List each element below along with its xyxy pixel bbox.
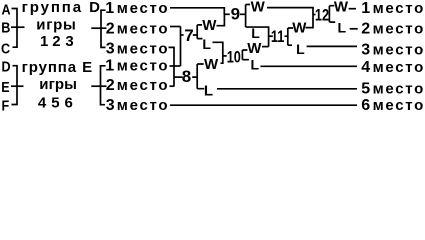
- svg-text:3: 3: [65, 33, 73, 50]
- svg-text:1: 1: [361, 0, 370, 17]
- svg-text:5: 5: [361, 80, 370, 97]
- svg-text:2: 2: [52, 33, 60, 50]
- svg-text:E: E: [1, 78, 9, 95]
- wire L11 to 3 место: [307, 45, 357, 47]
- bracket group D teams (A,B,C): [12, 9, 18, 48]
- svg-text:L: L: [338, 20, 347, 36]
- bracket group E teams (D,E,F): [12, 66, 18, 105]
- bracket group D places: [101, 10, 106, 47]
- svg-text:2: 2: [106, 20, 115, 37]
- game 7 output bracket: [193, 25, 203, 39]
- game 12 stub: [313, 14, 316, 16]
- svg-text:место: место: [373, 42, 425, 59]
- svg-text:игры: игры: [39, 76, 77, 93]
- wire W9 to game 12: [267, 8, 313, 14]
- svg-text:C: C: [1, 39, 10, 56]
- svg-text:3: 3: [361, 42, 370, 59]
- svg-text:7: 7: [184, 26, 193, 45]
- bracket group E places: [101, 66, 106, 105]
- svg-text:место: место: [117, 77, 169, 94]
- game 11 output bracket: [285, 28, 294, 45]
- wire W8 to game 10: [221, 56, 223, 63]
- svg-text:место: место: [373, 0, 425, 17]
- tick B: [11, 26, 25, 28]
- game 8 input bracket (D3 vs E2): [174, 76, 183, 78]
- svg-text:игры: игры: [36, 16, 76, 33]
- game 10 stub: [223, 55, 227, 57]
- wire L10 to 4 место: [261, 65, 358, 67]
- svg-text:W: W: [292, 20, 307, 37]
- svg-text:L: L: [251, 57, 260, 73]
- game 12 output bracket: [328, 6, 335, 22]
- game 9 stub: [224, 13, 229, 15]
- wire W12 dash to 1 место: [349, 8, 356, 10]
- svg-text:2: 2: [106, 77, 115, 94]
- svg-text:3: 3: [106, 97, 115, 114]
- svg-text:W: W: [204, 56, 219, 73]
- svg-text:группа Е: группа Е: [22, 59, 93, 76]
- svg-text:D: D: [2, 57, 11, 74]
- svg-text:место: место: [117, 40, 169, 57]
- wire D2 to game 7: [170, 26, 181, 28]
- svg-text:W: W: [247, 40, 262, 57]
- svg-text:W: W: [251, 0, 266, 16]
- svg-text:4: 4: [361, 59, 370, 76]
- svg-text:8: 8: [182, 67, 191, 86]
- svg-text:место: место: [117, 20, 169, 37]
- svg-text:место: место: [373, 20, 425, 37]
- svg-text:3: 3: [106, 40, 115, 57]
- svg-text:5: 5: [51, 95, 59, 112]
- game 10 output bracket: [242, 50, 249, 60]
- svg-text:4: 4: [38, 95, 47, 112]
- wire E2 to game 8: [170, 85, 175, 87]
- game 8 output bracket: [192, 64, 204, 89]
- wire W7 to game 9: [217, 14, 225, 26]
- wire L9 elbow down to game 11: [246, 27, 269, 47]
- svg-text:L: L: [202, 36, 211, 52]
- svg-text:1: 1: [105, 0, 114, 17]
- svg-text:L: L: [296, 41, 305, 57]
- wire D1 to game 9: [170, 8, 224, 14]
- tick E: [11, 85, 24, 87]
- svg-text:F: F: [2, 96, 10, 113]
- svg-text:6: 6: [65, 95, 73, 112]
- wire D3 elbow down to game 8: [169, 47, 175, 86]
- wire L7 elbow down to game 10: [213, 42, 223, 56]
- wire L12 dash to 2 место: [350, 28, 358, 30]
- svg-text:место: место: [117, 97, 169, 114]
- wire E1 to game 7 (crosses D3 wire): [170, 65, 181, 67]
- wire E3 to final 6 место: [170, 104, 357, 106]
- tick group E to places: [91, 85, 106, 87]
- svg-text:W: W: [202, 17, 217, 34]
- svg-text:1: 1: [105, 58, 114, 75]
- svg-text:место: место: [373, 97, 425, 114]
- game 7 input bracket: [180, 27, 182, 67]
- wire W10 to game 11: [262, 46, 269, 48]
- wire W11 to game 12: [306, 14, 314, 28]
- svg-text:2: 2: [361, 20, 370, 37]
- svg-text:6: 6: [361, 97, 370, 114]
- svg-text:место: место: [373, 59, 425, 76]
- svg-text:11: 11: [271, 27, 284, 46]
- svg-text:группа D: группа D: [22, 0, 102, 16]
- svg-text:место: место: [117, 0, 169, 17]
- game 11 stub: [269, 35, 273, 37]
- svg-text:1: 1: [40, 33, 48, 50]
- svg-text:12: 12: [315, 6, 329, 25]
- tick group D to places: [91, 27, 106, 29]
- game 9 output bracket: [240, 5, 250, 28]
- svg-text:W: W: [334, 0, 349, 15]
- svg-text:L: L: [204, 82, 213, 99]
- svg-text:место: место: [117, 58, 169, 75]
- svg-text:место: место: [373, 80, 425, 97]
- wire L8 to 5 место: [217, 88, 357, 90]
- svg-text:B: B: [1, 18, 10, 35]
- svg-text:A: A: [2, 0, 11, 17]
- svg-text:9: 9: [231, 5, 240, 24]
- svg-text:10: 10: [227, 48, 241, 67]
